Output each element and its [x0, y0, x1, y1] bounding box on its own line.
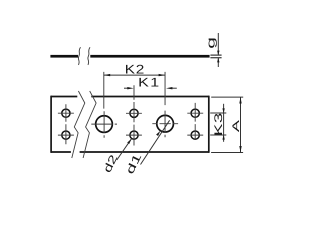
dimension K1 arrow right (pointing left)	[166, 87, 172, 89]
plate outline top edge right part	[91, 96, 209, 98]
svg-text:A: A	[232, 120, 242, 133]
plate outline left edge	[50, 96, 52, 153]
dimension K2 arrow right	[159, 74, 165, 76]
plate outline bottom edge right part	[80, 151, 209, 153]
hole d2 top-middle	[130, 109, 138, 117]
dimension K3 arrow down (above)	[222, 108, 224, 113]
centerline right large hole horizontal	[152, 123, 178, 125]
centerline left large hole horizontal	[91, 123, 117, 125]
dimension g extension line top	[210, 54, 221, 56]
dimension g extension line bottom	[210, 57, 221, 59]
dimension K3 extension line top	[210, 112, 226, 114]
centerline right column horizontals	[187, 113, 203, 135]
centerline right column vertical	[194, 103, 196, 140]
dimension g arrow down	[217, 51, 219, 56]
leader line d2	[117, 139, 132, 160]
plate edge view (top view bar), left segment	[50, 55, 78, 58]
svg-text:K3: K3	[213, 112, 225, 136]
dimension K1 line left segment	[124, 87, 130, 89]
dimension A extension line top	[211, 96, 243, 98]
dimension g line below	[217, 58, 219, 67]
dimension A line	[240, 97, 242, 152]
leader line d1	[141, 120, 170, 164]
dimension K3 arrow up (below)	[222, 135, 224, 140]
hole d2 bottom-middle	[130, 131, 138, 139]
dimension K2 line	[104, 74, 165, 76]
svg-text:K2: K2	[125, 62, 145, 76]
dimension K3 extension line bottom	[210, 134, 226, 136]
hole d2 bottom-left	[62, 131, 70, 139]
centerline middle column vertical (also K1 extension)	[133, 85, 135, 145]
centerline middle column horizontals	[126, 113, 142, 135]
hole d2 top-left	[62, 109, 70, 117]
break mark squiggle right (top view)	[88, 47, 90, 65]
centerline left column vertical	[65, 104, 67, 144]
dimension K1 arrow left (pointing right)	[127, 87, 133, 89]
break mark squiggle left (top view)	[78, 47, 80, 65]
dimension K2 arrow left	[104, 74, 110, 76]
dimension K1 line right segment	[170, 87, 177, 89]
break line zigzag left (front view)	[72, 91, 85, 158]
svg-text:g: g	[204, 37, 217, 49]
hole d2 top-right	[191, 109, 199, 117]
plate edge view (top view bar), right segment	[90, 55, 209, 58]
hole d1 left (large)	[96, 116, 113, 133]
leader d2 arrow	[127, 139, 131, 144]
plate outline right edge	[208, 96, 210, 153]
plate outline bottom edge left part	[51, 151, 71, 153]
dimension K3 line	[223, 104, 225, 142]
dimension A arrow up	[239, 97, 241, 103]
dimension A extension line bottom	[211, 152, 243, 154]
dimension g line above	[217, 33, 219, 55]
centerline left column horizontals	[58, 113, 74, 135]
break line zigzag right (front view)	[83, 91, 96, 158]
svg-text:K1: K1	[138, 76, 161, 90]
plate outline top edge left part	[51, 96, 77, 98]
centerline right large hole vertical (also K2/K1 extension)	[164, 72, 166, 137]
hole d1 right (large)	[157, 115, 174, 132]
hole d2 bottom-right	[191, 131, 199, 139]
dimension A arrow down	[239, 146, 241, 152]
centerline left large hole vertical (also K2 extension)	[103, 72, 105, 138]
leader d1 arrow	[156, 131, 160, 136]
dimension g arrow up	[217, 58, 219, 63]
